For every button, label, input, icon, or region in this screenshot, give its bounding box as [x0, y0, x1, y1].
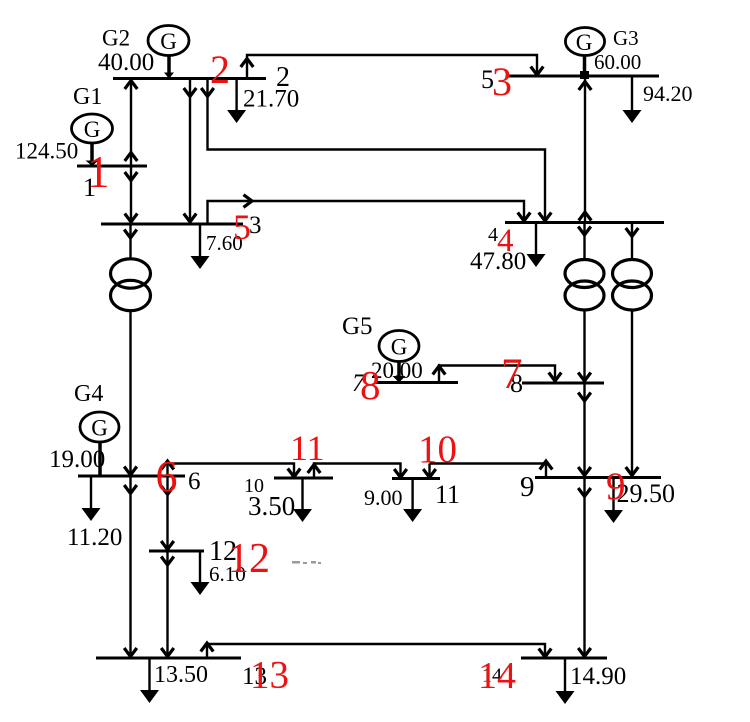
load at bus 2 value 21.70: [227, 79, 299, 124]
load at bus 11 value 9.00: [364, 479, 422, 523]
load at bus 10 value 3.50: [248, 478, 312, 522]
bus 7 (left, black label 7): [375, 381, 458, 384]
svg-text:11: 11: [435, 480, 460, 509]
wire line 2-3 (top): [241, 55, 544, 79]
wire line 11-9: [423, 461, 552, 479]
svg-text:3: 3: [492, 59, 512, 104]
wire line 7-8: [433, 366, 562, 384]
svg-text:21.70: 21.70: [243, 86, 299, 113]
transformer 5-6: [111, 224, 151, 476]
load at bus 5 value 7.60: [191, 224, 243, 269]
bus 12: [149, 550, 204, 553]
bus 10: [274, 477, 333, 480]
svg-text:14: 14: [478, 655, 516, 697]
svg-text:13.50: 13.50: [154, 662, 208, 688]
generator G1: [15, 84, 113, 166]
svg-text:8: 8: [360, 362, 381, 408]
svg-text:124.50: 124.50: [15, 139, 78, 164]
wire line 2-4: [201, 79, 551, 223]
svg-text:G2: G2: [102, 26, 130, 51]
load at bus 9 value 29.50: [604, 478, 675, 524]
svg-text:9: 9: [520, 471, 535, 503]
wire line 1-5: [125, 166, 138, 224]
svg-text:G: G: [160, 29, 177, 54]
svg-text:7: 7: [501, 351, 523, 398]
bus 13: [96, 657, 241, 660]
wire line 2-5: [184, 79, 197, 225]
load at bus 4 value 47.80: [470, 223, 546, 276]
bus 11: [392, 477, 440, 480]
bus 8 (right, black label 8): [522, 382, 604, 385]
svg-text:10: 10: [244, 475, 264, 497]
bus 5 (black label 3): [101, 223, 243, 226]
svg-text:19.00: 19.00: [49, 446, 105, 473]
svg-text:G: G: [576, 30, 593, 55]
svg-text:G: G: [91, 416, 108, 441]
svg-text:G1: G1: [73, 84, 102, 110]
wire line 9-14: [578, 478, 591, 659]
svg-text:9: 9: [606, 465, 626, 508]
transformer 4-7: [565, 223, 604, 384]
wire line 3-4: [579, 76, 592, 223]
transformer 4-9: [613, 223, 652, 478]
generator G4: [49, 381, 119, 476]
generator G2: [98, 26, 189, 79]
load at bus 3 value 94.20: [623, 76, 693, 123]
svg-text:10: 10: [418, 428, 457, 471]
svg-text:12: 12: [228, 536, 270, 582]
svg-text:4: 4: [497, 223, 514, 259]
wire line 12-13: [161, 551, 174, 658]
svg-text:G3: G3: [613, 26, 639, 50]
bus 3 (black label 5): [506, 75, 659, 78]
wire line 6-11: [161, 461, 300, 478]
stray scan dots near bus 12: [292, 561, 321, 564]
load at bus 12 value 6.10: [191, 551, 246, 595]
svg-text:1: 1: [87, 147, 110, 197]
svg-text:5: 5: [233, 207, 251, 247]
bus 14: [521, 657, 607, 660]
bus 1: [77, 165, 147, 168]
svg-text:9.00: 9.00: [364, 485, 403, 510]
generator G5: [342, 313, 423, 383]
load at bus 6 value 11.20: [67, 476, 122, 551]
load at bus 14 value 14.90: [556, 658, 627, 704]
svg-text:11.20: 11.20: [67, 524, 122, 551]
wire line 1-2: [125, 79, 138, 167]
generator G3: [565, 26, 641, 79]
svg-text:G: G: [391, 335, 408, 360]
svg-text:G5: G5: [342, 313, 373, 340]
svg-text:11: 11: [290, 428, 325, 468]
svg-text:G4: G4: [74, 381, 103, 407]
wire line 13-14: [201, 643, 552, 658]
svg-text:G: G: [84, 117, 101, 142]
svg-text:94.20: 94.20: [643, 81, 693, 106]
wire line 6-12: [161, 476, 174, 551]
svg-text:6: 6: [188, 468, 201, 495]
wire line 7-9: [578, 383, 591, 478]
svg-text:60.00: 60.00: [594, 50, 641, 74]
bus 6: [78, 475, 185, 478]
bus 9: [535, 476, 661, 479]
bus 2: [113, 77, 266, 80]
svg-text:2: 2: [276, 62, 290, 93]
bus 4: [505, 221, 664, 224]
svg-text:14.90: 14.90: [570, 663, 626, 690]
svg-text:40.00: 40.00: [98, 49, 154, 76]
wire line 6-13: [124, 476, 137, 658]
svg-text:13: 13: [250, 654, 289, 697]
wire line 5-4: [208, 195, 531, 224]
svg-text:2: 2: [210, 47, 230, 92]
load at bus 13 value 13.50: [140, 658, 208, 703]
svg-text:6: 6: [156, 452, 178, 501]
wire line 10-11: [308, 464, 407, 479]
